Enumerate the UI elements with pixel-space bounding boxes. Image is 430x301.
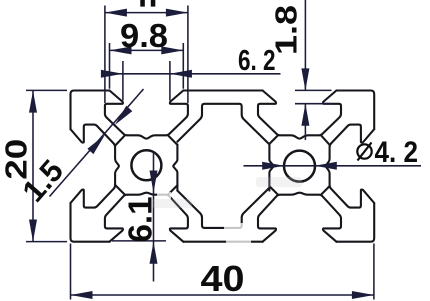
left cell void corner chamfers (115, 135, 125, 146)
dim 1.5: leader line (50, 89, 144, 197)
left end T-slot cavity (71, 125, 119, 208)
svg-text:40: 40 (201, 258, 245, 299)
top-left T-slot cavity (105, 91, 188, 139)
dim 6.1: extension tick (112, 240, 166, 242)
dim 11: dimension line (105, 12, 188, 14)
dim 6.1: dimension line (153, 152, 155, 282)
dim 6.2: dimension line with label underline (104, 73, 281, 75)
profile outline bottom-right corner (336, 203, 374, 242)
central void lower half (177, 188, 269, 228)
dim dia4.2: diameter symbol (357, 144, 371, 158)
profile outline top-left corner (71, 91, 110, 130)
dim 20: dimension line (32, 91, 34, 242)
dim 6.2: extension lines (122, 61, 124, 101)
top-right T-slot cavity (258, 91, 341, 139)
dim 40: extension lines (70, 244, 72, 300)
hole left cell (131, 150, 161, 180)
dim 9.8: extension lines (109, 43, 111, 89)
central void upper half (177, 104, 269, 145)
left cell mid wall with nick (173, 144, 177, 190)
dim 9.8: dimension line (110, 49, 184, 51)
dim 20: extension lines (26, 89, 67, 91)
profile outline bottom mid face (183, 241, 262, 243)
bottom-right T-slot cavity (258, 193, 341, 242)
dim 1.8: extension ticks (295, 89, 332, 91)
dim 11: label (cropped digits) (140, 0, 145, 7)
svg-text:4. 2: 4. 2 (375, 136, 419, 169)
dim 1.8: dimension line vertical (304, 0, 306, 90)
svg-text:9.8: 9.8 (120, 17, 168, 54)
watermark fade (157, 192, 251, 245)
right cell void corner chamfers (269, 135, 278, 144)
profile outline bottom-left corner (71, 203, 110, 242)
bottom-left T-slot cavity (105, 193, 188, 242)
dim 40: dimension line (71, 294, 374, 296)
hole right cell (dia 4.2) (284, 151, 315, 182)
right end T-slot cavity (326, 125, 374, 208)
profile outline top mid face (183, 89, 262, 91)
svg-text:1.8: 1.8 (269, 5, 304, 55)
dim 11: extension lines (104, 6, 106, 104)
dim dia4.2: dimension line (244, 165, 422, 167)
profile outline top-right corner (336, 91, 374, 130)
right cell mid wall with nick (269, 144, 273, 190)
